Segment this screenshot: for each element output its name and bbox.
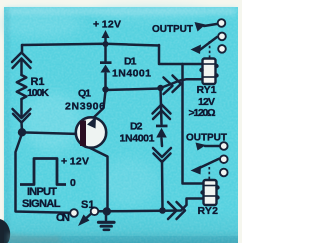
svg-text:0: 0 xyxy=(70,177,76,189)
transistor Q1 emitter wire xyxy=(88,91,106,123)
chevrons right (RY1 feed) xyxy=(164,78,173,95)
svg-text:Q1: Q1 xyxy=(78,88,91,100)
+12V arrow stem xyxy=(104,36,107,44)
input pulse waveform xyxy=(20,159,66,185)
svg-text:12V: 12V xyxy=(198,96,215,108)
svg-text:OUTPUT: OUTPUT xyxy=(186,133,227,144)
resistor R1 xyxy=(12,45,31,132)
contact terminal RY1 b xyxy=(218,33,226,41)
junction dot R1 bottom xyxy=(18,128,26,136)
relay coil RY1 xyxy=(199,59,218,85)
contact line RY1 NO xyxy=(204,24,217,26)
svg-text:D1: D1 xyxy=(124,56,137,68)
arrow to contact RY1 xyxy=(195,22,206,32)
svg-text:D2: D2 xyxy=(130,121,143,133)
contact terminal RY1 a xyxy=(218,19,226,27)
svg-text:1N4001: 1N4001 xyxy=(112,68,151,80)
arrow to contact RY2 xyxy=(196,143,207,151)
svg-text:ON: ON xyxy=(56,212,70,224)
node A junction dot xyxy=(102,86,108,92)
svg-text:RY2: RY2 xyxy=(198,205,219,217)
wire rail to RY2 chevron run xyxy=(163,199,205,211)
contact terminal RY2 a xyxy=(220,142,228,150)
junction dot +12V rail xyxy=(103,41,109,47)
svg-text:RY1: RY1 xyxy=(197,84,217,96)
relay coil RY2 xyxy=(200,180,219,205)
svg-text:2N3906: 2N3906 xyxy=(65,101,105,113)
wire left branch down to S1 xyxy=(16,134,70,213)
switch S1 contact right xyxy=(91,208,99,216)
ground xyxy=(99,222,115,230)
svg-text:OUTPUT: OUTPUT xyxy=(152,24,193,35)
dashed linkage RY2 xyxy=(208,167,210,180)
contact terminal RY2 c xyxy=(220,169,228,177)
svg-text:100K: 100K xyxy=(27,87,49,99)
wire node A horizontal xyxy=(106,89,161,91)
wire rail step to RY1 top xyxy=(159,45,203,64)
junction dot D2 bottom rail xyxy=(159,207,166,214)
wire top rail xyxy=(22,44,159,46)
switch S1 contact left xyxy=(70,209,78,217)
chevrons up on D2 branch xyxy=(153,105,171,114)
wire base of Q1 xyxy=(22,132,80,134)
+12V arrowhead xyxy=(102,30,110,38)
transistor Q1 collector wire xyxy=(85,146,108,210)
svg-text:1N4001: 1N4001 xyxy=(120,133,155,145)
svg-text:SIGNAL: SIGNAL xyxy=(22,198,61,210)
junction dot node A right xyxy=(157,85,163,91)
contact line RY2 NO xyxy=(205,145,219,148)
bottom rail xyxy=(99,210,163,213)
svg-text:INPUT: INPUT xyxy=(27,186,57,198)
dark blob bottom-left corner xyxy=(0,219,10,243)
dashed linkage RY1 xyxy=(209,41,211,58)
switch S1 arrowhead xyxy=(78,215,90,227)
pivot arrowhead RY1 arm xyxy=(191,45,202,55)
svg-text:S1: S1 xyxy=(81,199,95,211)
contact terminal RY2 b xyxy=(220,155,228,163)
chevrons down below D2 xyxy=(153,148,171,157)
transistor Q1 xyxy=(76,117,106,148)
ground stub xyxy=(105,215,108,220)
svg-text:+ 12V: + 12V xyxy=(93,19,121,31)
diode D2 lower wire xyxy=(160,139,163,147)
svg-text:>120Ω: >120Ω xyxy=(189,107,216,119)
background paper xyxy=(0,0,242,243)
switch S1 arm xyxy=(84,212,94,221)
contact arm RY1 xyxy=(199,37,217,51)
pivot arrowhead RY2 arm xyxy=(191,166,202,175)
junction dot collector/ground xyxy=(103,207,111,215)
wire +12V feed down to RY2 xyxy=(183,64,205,184)
chevrons right (RY2 feed) xyxy=(168,202,177,219)
blue halftone field xyxy=(4,7,238,243)
diode D1 body wires xyxy=(104,44,107,61)
contact arm RY2 xyxy=(195,159,219,170)
wire chevron run to RY1 bottom xyxy=(161,79,203,88)
svg-text:+ 12V: + 12V xyxy=(61,156,89,168)
diode D2 xyxy=(156,125,168,138)
wire node A down to D2 xyxy=(161,89,162,125)
diode D1 xyxy=(100,61,112,72)
contact terminal RY1 c xyxy=(218,45,226,53)
